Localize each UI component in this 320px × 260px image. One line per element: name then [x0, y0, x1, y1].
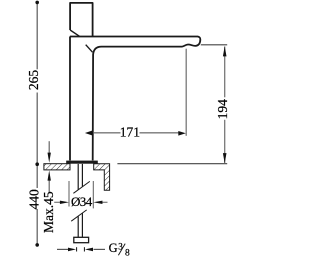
svg-text:Ø34: Ø34 [71, 194, 93, 209]
svg-text:G: G [109, 241, 118, 255]
svg-text:440: 440 [27, 189, 42, 210]
svg-text:3: 3 [118, 241, 123, 251]
svg-text:Max.45: Max.45 [41, 191, 56, 233]
svg-text:265: 265 [26, 70, 41, 91]
svg-text:194: 194 [215, 99, 230, 120]
svg-text:171: 171 [120, 124, 140, 139]
svg-text:8: 8 [125, 248, 130, 258]
